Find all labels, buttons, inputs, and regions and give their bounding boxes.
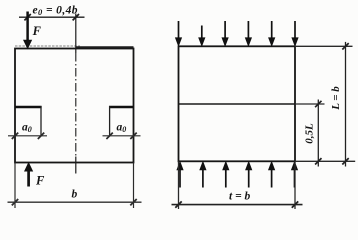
mid line at 0.5L: [179, 103, 296, 105]
dimension line e0 = 0.4b: [19, 14, 85, 20]
svg-text:e0 = 0,4b: e0 = 0,4b: [33, 5, 78, 18]
dimension line t=b: [172, 201, 303, 207]
dimension line L=b: [342, 42, 348, 167]
left slot top edge: [15, 106, 42, 109]
svg-text:t = b: t = b: [229, 191, 250, 203]
thicker right half of top edge: [76, 46, 134, 48]
force arrow F bottom: [25, 163, 33, 187]
dimension line b: [8, 199, 142, 205]
left square outline (specimen with slots): [15, 49, 134, 163]
centerline extension above square: [75, 14, 77, 54]
top edge extension line: [295, 45, 353, 47]
centerline crossing bottom edge: [75, 157, 77, 174]
distributed load arrows bottom: [177, 162, 297, 188]
extension line t=b right: [294, 161, 296, 209]
distributed load arrows top: [176, 21, 298, 46]
dimension line a0 right: [103, 133, 141, 139]
extension line t=b left: [178, 161, 180, 209]
dimension line a0 left: [8, 133, 47, 139]
svg-text:a0: a0: [117, 122, 127, 135]
dimension line 0,5L: [315, 100, 321, 167]
right slot inner edge: [109, 106, 111, 136]
bottom edge extension line: [295, 160, 355, 162]
grey bearing line above top edge: [15, 45, 80, 47]
extension line b left: [14, 163, 16, 209]
svg-text:L = b: L = b: [330, 86, 342, 111]
svg-text:a0: a0: [22, 122, 32, 135]
left slot inner edge: [40, 106, 42, 136]
extension line b right: [133, 163, 135, 209]
right slot top edge: [109, 106, 134, 109]
svg-text:b: b: [72, 189, 78, 201]
svg-text:F: F: [32, 24, 42, 38]
force arrow F top: [24, 12, 32, 49]
right square outline: [179, 46, 296, 161]
vertical centerline (dash-dot): [75, 53, 77, 156]
mid line extension: [295, 103, 325, 105]
svg-text:0,5L: 0,5L: [303, 123, 315, 144]
svg-text:F: F: [35, 174, 45, 188]
